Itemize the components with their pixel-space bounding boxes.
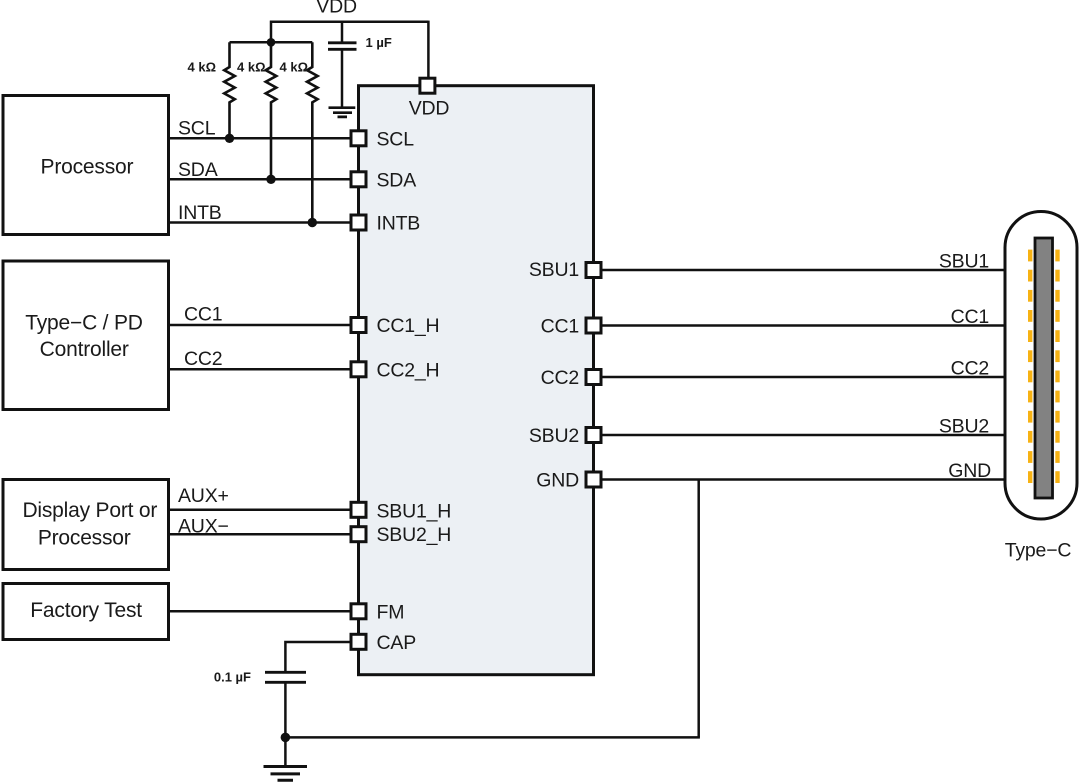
- svg-text:Controller: Controller: [40, 338, 129, 361]
- wire CAP to 0.1uF cap: [285, 642, 350, 671]
- svg-text:INTB: INTB: [377, 213, 421, 235]
- pin INTB: [351, 215, 366, 230]
- wire SCL: [170, 137, 351, 140]
- pin GND (right): [586, 472, 601, 487]
- pin SBU2_H: [351, 527, 366, 542]
- Type-C connector shell: [1005, 212, 1077, 520]
- svg-text:CC1_H: CC1_H: [377, 315, 440, 337]
- svg-text:SDA: SDA: [178, 159, 218, 181]
- svg-text:SBU1: SBU1: [529, 259, 579, 281]
- wire CC1: [170, 324, 351, 327]
- Type-C connector tongue: [1035, 238, 1053, 498]
- pin SDA: [351, 172, 366, 187]
- wire GND branch vertical: [697, 480, 700, 738]
- wire ground bottom rail: [285, 736, 700, 739]
- pin CC1 (right): [586, 318, 601, 333]
- IC U1 body: [359, 86, 594, 675]
- wire resistor top rail: [230, 41, 313, 44]
- pin CC2_H: [351, 362, 366, 377]
- wire SDA: [170, 178, 351, 181]
- Factory Test box: [3, 584, 169, 640]
- junction dot ground node: [281, 733, 291, 743]
- resistor R1 4k (SCL pull-up): [224, 42, 235, 138]
- pin FM: [351, 604, 366, 619]
- wire SBU1 to connector: [601, 269, 1005, 272]
- junction dot VDD/resistor rail: [267, 38, 276, 47]
- svg-text:CAP: CAP: [377, 632, 417, 654]
- ground (bottom): [264, 767, 308, 781]
- svg-text:SBU2: SBU2: [529, 425, 579, 447]
- svg-text:SCL: SCL: [178, 117, 216, 139]
- svg-text:CC2: CC2: [184, 348, 222, 370]
- svg-text:CC2: CC2: [541, 367, 579, 389]
- junction dot INTB/R3: [308, 218, 317, 227]
- svg-text:Type−C / PD: Type−C / PD: [25, 311, 142, 334]
- junction dot SDA/R2: [266, 175, 275, 184]
- wire VDD drop to pin: [427, 21, 430, 77]
- svg-text:GND: GND: [536, 470, 579, 492]
- svg-text:1 µF: 1 µF: [366, 35, 392, 50]
- ground lead (bottom): [284, 737, 287, 765]
- Type-C connector contacts left: [1028, 250, 1032, 483]
- svg-text:Type−C: Type−C: [1005, 540, 1072, 562]
- svg-text:CC1: CC1: [541, 316, 579, 338]
- svg-text:SCL: SCL: [377, 129, 415, 151]
- svg-text:4 kΩ: 4 kΩ: [280, 60, 309, 75]
- svg-text:SDA: SDA: [377, 170, 417, 192]
- capacitor C2 0.1uF plates: [265, 672, 306, 682]
- pin SBU2 (right): [586, 428, 601, 443]
- wire FM: [170, 610, 351, 613]
- junction dot SCL/R1: [225, 134, 234, 143]
- wire INTB: [170, 221, 351, 224]
- capacitor C1 bottom lead: [341, 49, 344, 106]
- svg-text:AUX+: AUX+: [178, 485, 229, 507]
- Processor box: [3, 96, 169, 235]
- pin CAP: [351, 634, 366, 649]
- svg-text:AUX−: AUX−: [178, 516, 229, 538]
- svg-text:CC2: CC2: [951, 358, 989, 380]
- svg-text:CC2_H: CC2_H: [377, 360, 440, 382]
- pin SCL: [351, 131, 366, 146]
- pin CC1_H: [351, 318, 366, 333]
- pin SBU1_H: [351, 502, 366, 517]
- svg-text:SBU2: SBU2: [939, 416, 989, 438]
- wire AUX-: [170, 533, 351, 536]
- svg-text:Processor: Processor: [38, 527, 131, 550]
- svg-text:4 kΩ: 4 kΩ: [188, 60, 217, 75]
- svg-text:INTB: INTB: [178, 202, 222, 224]
- Type-C connector contacts right: [1055, 250, 1059, 483]
- wire CC2 to connector: [601, 376, 1005, 379]
- ground (1uF cap): [329, 108, 356, 117]
- svg-text:FM: FM: [377, 602, 405, 624]
- svg-text:0.1 µF: 0.1 µF: [214, 670, 251, 685]
- capacitor C2 bottom lead: [284, 682, 287, 737]
- wire AUX+: [170, 509, 351, 512]
- wire VDD top rail: [270, 21, 428, 24]
- svg-text:SBU1_H: SBU1_H: [377, 501, 452, 523]
- pin SBU1 (right): [586, 263, 601, 278]
- svg-text:Processor: Processor: [41, 156, 134, 179]
- wire VDD stub to resistor rail: [270, 21, 273, 43]
- capacitor C1 1uF top lead: [341, 21, 344, 43]
- pin VDD: [420, 78, 435, 93]
- svg-text:SBU1: SBU1: [939, 251, 989, 273]
- svg-text:VDD: VDD: [409, 98, 450, 120]
- resistor R3 4k (INTB pull-up): [307, 42, 318, 222]
- svg-text:SBU2_H: SBU2_H: [377, 524, 452, 546]
- svg-text:4 kΩ: 4 kΩ: [237, 60, 266, 75]
- wire CC1 to connector: [601, 324, 1005, 327]
- wire GND to connector: [601, 478, 1005, 481]
- svg-text:VDD: VDD: [316, 0, 357, 18]
- Display Port or Processor box: [3, 480, 169, 570]
- svg-text:CC1: CC1: [951, 306, 989, 328]
- resistor R2 4k (SDA pull-up): [266, 42, 277, 179]
- capacitor C1 plates: [328, 43, 357, 50]
- pin CC2 (right): [586, 370, 601, 385]
- svg-text:Factory Test: Factory Test: [30, 599, 142, 622]
- wire CC2: [170, 368, 351, 371]
- svg-text:GND: GND: [948, 460, 991, 482]
- wire SBU2 to connector: [601, 434, 1005, 437]
- svg-text:Display Port or: Display Port or: [22, 499, 157, 522]
- svg-text:CC1: CC1: [184, 304, 222, 326]
- Type-C / PD Controller box: [3, 261, 169, 410]
